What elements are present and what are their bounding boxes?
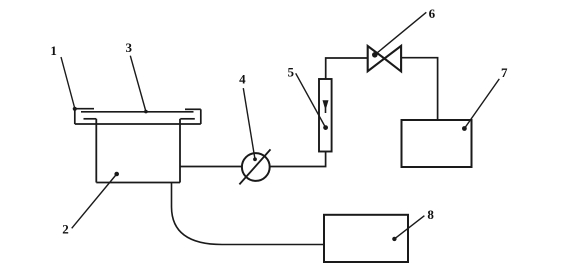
wire: pump 4 to flowmeter 5 bottom	[270, 152, 326, 167]
svg-text:1: 1	[50, 43, 57, 58]
svg-text:6: 6	[429, 6, 436, 21]
leader line 1	[61, 57, 75, 109]
svg-text:4: 4	[239, 72, 246, 87]
pump/stopcock 4 (circle)	[242, 153, 270, 181]
node dot 5	[323, 125, 328, 130]
leader line 6	[375, 12, 427, 55]
node dot 2	[114, 172, 119, 177]
leader line 3	[130, 56, 146, 112]
svg-text:7: 7	[501, 65, 508, 80]
svg-text:3: 3	[126, 40, 133, 55]
node dot 6	[372, 52, 378, 58]
node dot 4	[253, 157, 257, 161]
svg-text:2: 2	[62, 222, 69, 237]
lid 3 (cover plate of vessel)	[75, 109, 201, 125]
box 8	[324, 215, 408, 262]
curved pipe: vessel bottom to box 8	[172, 183, 325, 245]
wire: vessel outlet to pump 4	[180, 166, 242, 168]
flowmeter 5 body	[319, 79, 332, 152]
node dot 7	[462, 126, 467, 131]
container 2 (vessel body)	[96, 119, 180, 183]
leader line 2	[72, 174, 117, 228]
leader line 7	[464, 79, 499, 129]
leader line 8	[394, 216, 424, 239]
svg-text:8: 8	[427, 207, 434, 222]
wire: flowmeter 5 top to valve 6	[326, 58, 368, 79]
node dot 1	[73, 107, 77, 111]
flowmeter 5 float (down arrow)	[323, 100, 329, 113]
slash through pump 4	[239, 149, 270, 184]
wire: valve 6 to box 7	[401, 58, 438, 120]
node dot 3	[144, 110, 148, 114]
valve 6 (bowtie)	[368, 46, 401, 72]
svg-text:5: 5	[287, 64, 294, 79]
box 7	[402, 120, 472, 167]
leader line 4	[243, 88, 255, 159]
node dot 8	[392, 237, 396, 241]
leader line 5	[296, 73, 326, 127]
